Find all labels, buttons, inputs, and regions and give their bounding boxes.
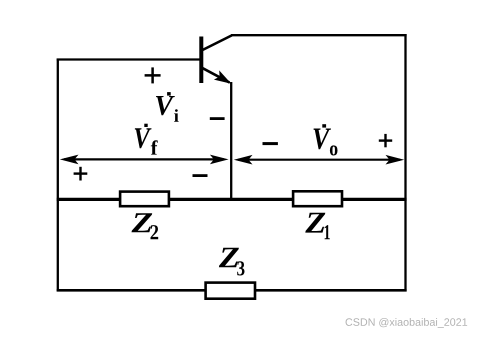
resistor Z1 body — [293, 191, 342, 206]
label: Vf (dotted V, subscript f) — [135, 124, 158, 155]
label: Z2 — [132, 213, 159, 239]
label: Z1 — [305, 213, 330, 240]
label: Vi (dotted V, subscript i) — [156, 92, 179, 122]
label: minus sign (Vi polarity, near emitter) — [210, 117, 225, 120]
arrow: Vf measurement (double-headed) — [60, 155, 229, 165]
wire: emitter vertical down to middle wire — [230, 82, 232, 200]
wire: left vertical — [57, 59, 59, 292]
transistor Q1 emitter lead with arrow — [202, 68, 231, 84]
transistor Q1 base bar — [199, 37, 203, 84]
label: plus sign (Vi polarity, top) — [145, 67, 161, 83]
transistor Q1 collector lead — [202, 35, 232, 50]
arrow: Vo measurement (double-headed) — [234, 155, 404, 165]
wire: bottom horizontal — [57, 289, 407, 292]
label: plus sign (Vo polarity, right) — [379, 134, 392, 147]
wire: right vertical — [404, 34, 406, 291]
label: Vo (dotted V, subscript o) — [314, 124, 338, 155]
label: minus sign (Vo polarity, left) — [263, 142, 278, 145]
wire: base horizontal (top of input loop) — [57, 58, 201, 60]
resistor Z2 body — [120, 192, 169, 207]
label: plus sign (Vf polarity, lower left) — [74, 167, 88, 181]
resistor Z3 body — [206, 283, 255, 299]
wire: top horizontal (collector to top-right) — [231, 34, 407, 36]
label: Z3 — [219, 248, 245, 276]
label: minus sign (Vf polarity, lower right) — [193, 174, 208, 177]
wire: middle horizontal — [57, 198, 407, 201]
watermark: CSDN @xiaobaibai_2021 — [346, 318, 468, 328]
